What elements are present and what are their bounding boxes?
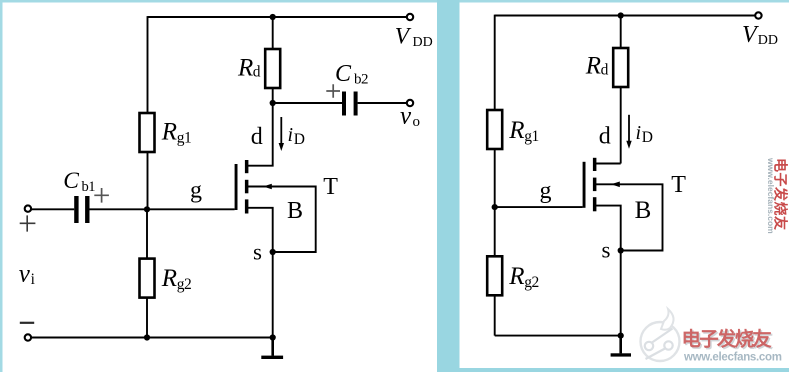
svg-text:B: B [287,198,303,224]
svg-text:D: D [294,131,305,148]
wire drain elbow right [595,163,621,165]
watermark logo circle [641,309,680,361]
svg-text:D: D [642,129,653,146]
current arrow iD right [626,115,631,149]
terminal VDD left [407,14,413,20]
frame left strip [0,0,3,372]
svg-text:DD: DD [413,35,433,50]
svg-text:g2: g2 [524,274,539,291]
wire gate right [495,206,583,208]
watermark text url [683,351,783,364]
mosfet T2 source bar [593,197,597,211]
label d right [599,124,611,150]
terminal input plus [25,205,31,211]
svg-text:C: C [335,61,352,87]
svg-text:B: B [635,197,652,224]
label B left [287,198,303,224]
svg-text:R: R [237,54,253,81]
svg-text:R: R [585,53,601,80]
capacitor Cb2 [342,92,358,116]
svg-text:www.elecfans.com: www.elecfans.com [766,157,776,234]
ground right [611,336,631,357]
node bottom junction left [270,334,276,340]
svg-text:b2: b2 [354,72,368,88]
label s right [602,238,611,263]
wire source rail down right [620,251,622,336]
resistor Rg1 left [140,113,155,152]
svg-text:T: T [323,174,338,200]
node s junction right [618,247,624,253]
svg-text:d: d [251,124,263,150]
label V_DD right [742,22,778,48]
label T left [323,174,338,200]
mosfet T1 source bar [245,199,249,213]
node bottom-left junction [144,334,150,340]
resistor Rg2 left [140,259,155,298]
capacitor Cb1 [74,196,89,223]
svg-text:DD: DD [758,33,778,48]
svg-text:R: R [508,263,524,290]
watermark text brand [682,328,774,353]
wire Rd rail [272,17,274,103]
terminal vo [407,100,413,106]
svg-text:www.elecfans.com: www.elecfans.com [683,351,782,363]
node s junction left [270,249,276,255]
svg-text:b1: b1 [82,179,96,195]
wire Cb2 to vo terminal [358,102,407,104]
plus sign input [20,215,36,231]
label Rg2 right [508,263,539,291]
label T right [671,172,686,198]
resistor Rd right [613,48,628,87]
frame bottom-right strip [459,368,789,372]
label iD left [288,124,306,148]
label vo [400,103,420,131]
svg-text:C: C [63,168,79,194]
svg-text:R: R [161,265,177,292]
svg-text:i: i [288,124,294,146]
wire top rail left [148,16,411,18]
wire Cb1 to gate node [90,208,148,210]
label Rg1 left [161,119,192,147]
plus sign Cb2 [326,84,340,98]
wire input to Cb1 [31,208,75,210]
svg-text:s: s [602,238,611,263]
svg-text:i: i [636,122,642,144]
watermark vertical brand right edge [766,157,789,234]
wire body with arrow right [596,182,663,251]
label V_DD left [395,24,433,51]
label vi [19,261,36,289]
wire body with arrow left [248,184,316,252]
label Rg2 left [161,265,192,293]
label B right [635,197,652,224]
label s left [253,240,262,265]
wire source stub left [248,208,273,252]
terminal VDD right [755,12,761,18]
node top junction [270,14,276,20]
label Cb2 [335,61,368,87]
divider band [437,0,460,372]
wire source stub right [596,206,621,251]
wire node to Cb2 [273,102,342,104]
ground left [261,338,283,360]
mosfet T1 drain bar [245,160,249,173]
label g right [540,178,552,204]
wire Rg rail mid [146,209,148,337]
wire drain elbow [247,103,273,166]
svg-text:g1: g1 [524,128,539,145]
label Rd left [237,54,261,81]
mosfet T1 body bar [245,180,249,194]
wire left rail right [494,15,496,207]
resistor Rg1 right [487,110,502,149]
svg-text:R: R [508,117,524,144]
label Rg1 right [508,117,539,145]
svg-text:g1: g1 [177,129,192,146]
node drain junction [270,100,276,106]
svg-text:电子发烧友: 电子发烧友 [682,328,773,351]
wire top rail right [495,15,759,17]
svg-text:g2: g2 [177,276,192,293]
svg-text:d: d [599,124,611,150]
label Rd right [585,53,609,80]
svg-text:i: i [31,271,36,288]
frame top strip [0,0,789,3]
mosfet T1 gate bar [235,164,238,210]
terminal input minus [25,334,31,340]
svg-text:g: g [190,178,202,204]
svg-text:V: V [742,22,759,48]
svg-text:R: R [161,119,177,146]
label iD right [636,122,654,146]
svg-text:d: d [253,63,261,80]
svg-text:o: o [413,114,421,130]
label d left [251,124,263,150]
resistor Rd left [265,49,280,88]
current arrow iD left [279,117,284,151]
wire bottom rail right [495,335,621,337]
label Cb1 [63,168,95,195]
wire gate left [147,208,235,210]
svg-text:T: T [671,172,686,198]
plus sign Cb1 [94,188,109,203]
mosfet T2 body bar [593,178,597,192]
wire source rail down left [272,252,274,338]
svg-text:d: d [601,62,609,79]
node bottom junction right [618,333,624,339]
svg-text:v: v [19,261,31,288]
wire bottom rail left [27,337,272,339]
node gate junction right [492,204,498,210]
wire Rd rail right [620,16,622,164]
svg-text:g: g [540,178,552,204]
mosfet T2 drain bar [593,158,597,171]
wire Rg rail right [494,207,496,336]
svg-text:v: v [400,103,412,130]
minus sign input [20,322,34,324]
mosfet T2 gate bar [583,162,586,208]
node top junction right [618,12,624,18]
node gate junction left [144,206,150,212]
resistor Rg2 right [487,256,502,295]
wire left rail down from top [147,16,149,209]
svg-text:s: s [253,240,262,265]
label g left [190,178,202,204]
